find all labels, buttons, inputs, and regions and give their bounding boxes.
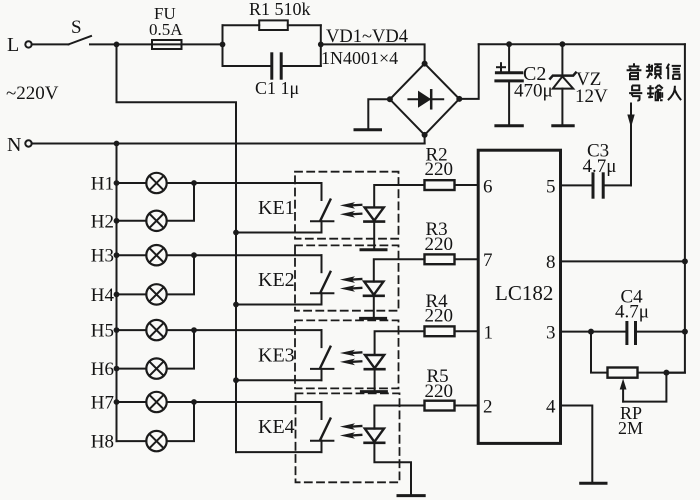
potentiometer RP 2M	[591, 332, 685, 438]
glyph 号	[629, 86, 642, 101]
glyph 音	[627, 63, 642, 79]
opto LED 1	[361, 207, 386, 249]
svg-text:220: 220	[425, 234, 454, 255]
resistor R1 510k with capacitor C1 1u in parallel	[223, 0, 321, 98]
svg-text:4: 4	[546, 397, 556, 418]
optocoupler dashed box 1	[295, 172, 399, 239]
node N terminal	[7, 134, 32, 156]
wire pin4 to ground	[561, 406, 593, 483]
lamp H1	[91, 173, 197, 195]
node dot pin8 rail	[682, 258, 688, 264]
node dot pin3 branch	[588, 329, 594, 335]
wire R1C1 to bridge top stub	[321, 44, 425, 63]
label audio signal input (drawn CJK glyphs 音频信/号输入)	[627, 63, 682, 100]
wire pin3 through C4 to rail	[561, 331, 685, 333]
svg-text:VD1~VD4: VD1~VD4	[326, 27, 408, 47]
lamp H7	[91, 392, 197, 414]
wire pin5 to C3	[561, 184, 592, 186]
label VD1~VD4 1N4001x4	[321, 27, 408, 68]
wire switch to fuse	[90, 43, 152, 45]
svg-text:5: 5	[546, 177, 556, 198]
wire DC+ rail top	[479, 43, 685, 45]
svg-text:H5: H5	[91, 321, 114, 342]
optocoupler dashed box 3	[295, 320, 399, 388]
ground under pin4	[581, 482, 606, 485]
glyph 频	[646, 64, 662, 79]
svg-text:1N4001×4: 1N4001×4	[321, 48, 398, 68]
svg-text:12V: 12V	[575, 86, 608, 107]
relay KE4	[194, 402, 333, 452]
node junction dot after switch	[114, 42, 120, 48]
svg-text:0.5A: 0.5A	[149, 20, 183, 39]
svg-text:H8: H8	[91, 432, 114, 453]
wire L to switch	[32, 43, 69, 45]
resistor R5 220	[374, 366, 478, 429]
opto LED 4	[365, 429, 425, 496]
svg-text:KE2: KE2	[258, 269, 295, 291]
relay KE2	[194, 255, 333, 307]
svg-text:S: S	[71, 17, 82, 38]
capacitor C3 4.7u	[583, 141, 617, 198]
fuse FU 0.5A	[149, 4, 183, 49]
opto light arrows 3	[340, 350, 361, 366]
wire lamp bus vertical	[116, 144, 118, 442]
ground bar under VZ	[553, 124, 573, 127]
svg-text:8: 8	[546, 252, 556, 273]
svg-text:470μ: 470μ	[514, 81, 553, 102]
lamp H5	[91, 320, 197, 342]
switch S	[69, 17, 92, 44]
node dot C2 top	[506, 41, 512, 47]
opto light arrows 2	[340, 276, 361, 292]
capacitor C2 470u electrolytic	[496, 44, 553, 125]
opto LED 2	[361, 282, 386, 319]
node dot RP right	[663, 370, 669, 376]
lamp H2	[91, 183, 194, 232]
svg-text:H2: H2	[91, 211, 114, 232]
wire pin8 to right rail	[561, 260, 685, 262]
ground at bridge left corner	[355, 99, 390, 130]
svg-text:C1 1μ: C1 1μ	[255, 78, 299, 98]
relay KE3	[194, 330, 333, 383]
node dot N at lamp bus	[114, 141, 120, 147]
lamp H8	[91, 402, 194, 453]
svg-text:R1 510k: R1 510k	[249, 0, 311, 19]
wire DC riser from bridge right	[459, 44, 478, 99]
lamp H4	[91, 255, 194, 306]
resistor R3 220	[374, 219, 478, 282]
wire audio input with arrow	[605, 104, 635, 186]
node dot right of R1C1	[318, 42, 324, 48]
optocoupler dashed box 2	[295, 245, 399, 310]
resistor R4 220	[375, 291, 479, 355]
svg-text:3: 3	[546, 323, 556, 344]
wire N rail	[32, 143, 425, 145]
opto light arrows 1	[340, 202, 361, 218]
svg-text:KE3: KE3	[258, 344, 295, 366]
svg-text:KE1: KE1	[258, 197, 295, 219]
node dot left of R1C1	[220, 42, 226, 48]
capacitor C4 4.7u	[615, 287, 649, 344]
svg-text:6: 6	[483, 177, 493, 198]
svg-text:4.7μ: 4.7μ	[583, 156, 617, 177]
node dot VZ top	[560, 41, 566, 47]
wire bridge bottom to N rail	[424, 135, 426, 144]
svg-text:220: 220	[425, 381, 454, 402]
glyph 输	[647, 85, 663, 100]
svg-text:LC182: LC182	[495, 281, 553, 305]
svg-text:H4: H4	[91, 285, 115, 306]
svg-text:1: 1	[484, 323, 494, 344]
svg-text:2M: 2M	[618, 418, 643, 438]
svg-text:N: N	[7, 134, 21, 156]
svg-text:H6: H6	[91, 359, 114, 380]
resistor R2 220	[374, 145, 478, 208]
wire fuse to R1C1	[182, 43, 223, 45]
svg-text:220: 220	[425, 306, 454, 327]
svg-text:220: 220	[425, 159, 454, 180]
node dot C4 right rail	[682, 329, 688, 335]
optocoupler dashed box 4	[296, 393, 400, 482]
svg-text:H3: H3	[91, 246, 114, 267]
opto light arrows 4	[340, 423, 361, 439]
svg-text:2: 2	[483, 397, 493, 418]
wire feed line down from switch junction to KE column	[117, 44, 237, 452]
lamp H6	[91, 330, 194, 380]
IC U1 LC182	[478, 150, 560, 443]
relay KE1	[194, 183, 333, 235]
svg-text:H1: H1	[91, 174, 114, 195]
wire right rail vertical	[666, 44, 685, 373]
ground bar under C2	[496, 124, 522, 127]
svg-text:L: L	[7, 34, 19, 56]
glyph 入	[668, 86, 681, 100]
zener diode VZ 12V	[550, 44, 608, 125]
svg-text:H7: H7	[91, 393, 114, 414]
node L terminal	[7, 34, 32, 56]
svg-text:4.7μ: 4.7μ	[615, 302, 649, 323]
diode bridge VD1-VD4	[387, 61, 462, 138]
svg-text:7: 7	[483, 250, 493, 271]
lamp H3	[91, 245, 197, 267]
svg-text:KE4: KE4	[258, 416, 295, 438]
opto LED 3	[361, 355, 386, 392]
glyph 信	[667, 64, 681, 80]
svg-text:~220V: ~220V	[6, 83, 59, 104]
